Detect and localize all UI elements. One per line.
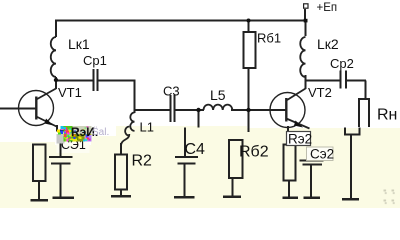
svg-text:Ср2: Ср2	[330, 56, 354, 71]
svg-text:Lк2: Lк2	[317, 36, 339, 52]
svg-text:+Еп: +Еп	[317, 2, 338, 14]
svg-text:C3: C3	[163, 84, 180, 99]
svg-text:S̈al.: S̈al.	[92, 125, 109, 138]
svg-text:Ср1: Ср1	[83, 53, 107, 68]
svg-text:R2: R2	[132, 153, 153, 170]
svg-text:Rн: Rн	[377, 107, 397, 124]
svg-text:C4: C4	[185, 141, 206, 158]
svg-text:L1: L1	[140, 120, 154, 135]
svg-text:Rэ2: Rэ2	[288, 132, 312, 147]
svg-text:L5: L5	[210, 87, 226, 103]
svg-text:Lк1: Lк1	[68, 36, 90, 52]
svg-text:Rб2: Rб2	[239, 144, 269, 161]
svg-text:VT1: VT1	[58, 85, 82, 100]
svg-text:Сэ2: Сэ2	[310, 147, 334, 162]
svg-text:VT2: VT2	[308, 85, 332, 100]
svg-text:Rб1: Rб1	[257, 31, 281, 46]
